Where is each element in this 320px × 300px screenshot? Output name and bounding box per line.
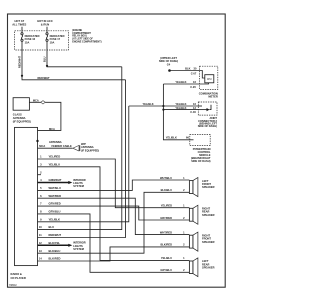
svg-text:BLU: BLU [42, 57, 46, 62]
svg-text:METER: METER [208, 95, 217, 99]
powertrain control module box (dashed) [190, 135, 210, 146]
svg-text:10A: 10A [50, 40, 55, 44]
ground dot G4 [168, 69, 171, 72]
wire BLK to combination meter pin 30 [170, 66, 200, 75]
wire stub above fuse 17 [46, 27, 48, 33]
svg-text:ANTENNA: ANTENNA [13, 116, 26, 120]
junction dot joint connector pin 12 [162, 109, 164, 111]
label HOT IN ACC & RUN [37, 19, 53, 26]
pin 7 GRY/RED wire to right rear speaker - [38, 202, 190, 220]
glass antenna caption [13, 112, 31, 123]
label W/P ANTENNA (IF EQUIPPED) [81, 142, 99, 152]
wire BLU vertical bus down to radio pin 10 [38, 67, 122, 230]
wire YEL/BLK bus to joint connector pin 16 [129, 102, 199, 106]
svg-text:BLU: BLU [49, 225, 55, 229]
svg-text:SIDE OF DASH): SIDE OF DASH) [159, 59, 178, 63]
left rear speaker [160, 256, 214, 276]
svg-text:ANTENNA: ANTENNA [49, 140, 62, 144]
svg-text:YEL/BLU: YEL/BLU [49, 162, 61, 166]
svg-text:BLK/YEL: BLK/YEL [49, 241, 61, 245]
pin 5 WHT/BLU wire to left front speaker + [38, 180, 190, 190]
svg-text:SPEAKER: SPEAKER [202, 185, 215, 189]
wire RED/WHT vertical bus down to radio pin 11 [38, 80, 126, 238]
svg-text:WHT/BLU: WHT/BLU [160, 176, 172, 180]
svg-text:RED/WHT: RED/WHT [49, 233, 62, 237]
junction dot antenna feeder on radio edge [36, 140, 38, 142]
svg-text:BLK/BLU: BLK/BLU [49, 249, 61, 253]
engine compartment relay box (dashed) [15, 31, 69, 50]
svg-text:HOT IN ACC: HOT IN ACC [37, 19, 53, 23]
pin 13 BLK/BLU wire to left front speaker - [38, 192, 190, 253]
right rear speaker [160, 204, 214, 225]
svg-text:WHT/RED: WHT/RED [49, 194, 62, 198]
svg-text:15A: 15A [25, 40, 30, 44]
svg-text:(IF EQUIPPED): (IF EQUIPPED) [13, 119, 31, 123]
junction dot joint connector pin 16 [162, 105, 164, 107]
pin 2 stub [38, 170, 43, 174]
svg-text:CD PLAYER: CD PLAYER [11, 276, 26, 280]
svg-text:MCA: MCA [39, 144, 45, 148]
svg-text:SIDE OF DASH): SIDE OF DASH) [191, 159, 210, 163]
combination meter box (dashed) [200, 66, 218, 89]
svg-text:GLASS: GLASS [13, 112, 22, 116]
svg-text:SPEAKER: SPEAKER [202, 213, 215, 217]
svg-text:GRY/RED: GRY/RED [49, 202, 61, 206]
svg-text:GRY/BLU: GRY/BLU [49, 210, 61, 214]
label HOT AT ALL TIMES [12, 19, 26, 26]
wire RED/WHT from fuse 16 down then right [22, 41, 126, 79]
svg-text:(IF EQUIPPED): (IF EQUIPPED) [81, 148, 99, 152]
svg-text:ALL TIMES: ALL TIMES [12, 23, 26, 27]
svg-text:CPU: CPU [207, 79, 212, 81]
pin 10 BLU label [39, 225, 54, 229]
pin 4 GRN/WHT arrow to interior lights system [38, 178, 86, 188]
pin 14 BLK/RED wire to right front speaker - [38, 247, 190, 261]
wire stub above fuse 16 [21, 27, 23, 33]
svg-text:FEEDER CABLE: FEEDER CABLE [52, 144, 72, 148]
pin 3 YEL/BLU wire to left rear speaker + [38, 162, 190, 260]
svg-text:BLK/BLU: BLK/BLU [161, 188, 173, 192]
glass antenna box [13, 98, 29, 111]
svg-text:C-20: C-20 [190, 85, 196, 89]
left front speaker [160, 176, 215, 197]
svg-text:YEL/BLK: YEL/BLK [175, 106, 186, 110]
svg-text:SYSTEM: SYSTEM [73, 247, 84, 251]
PCM caption [191, 147, 211, 163]
svg-text:YEL/BLK: YEL/BLK [175, 102, 186, 106]
connector symbol W/P antenna [73, 145, 79, 151]
right front speaker [160, 230, 215, 251]
svg-text:GRN/WHT: GRN/WHT [49, 178, 62, 182]
svg-text:ENGINE COMPARTMENT): ENGINE COMPARTMENT) [72, 41, 102, 44]
svg-text:G4: G4 [167, 63, 171, 67]
fuse 16 [21, 33, 40, 45]
svg-text:WHT/BLU: WHT/BLU [49, 186, 61, 190]
wire antenna lead from glass antenna to radio [29, 102, 61, 130]
svg-text:MCA: MCA [33, 98, 39, 102]
pin 6 WHT/RED wire to right front speaker + [38, 194, 190, 235]
svg-text:YEL/RED: YEL/RED [161, 204, 172, 208]
svg-text:BLK/RED: BLK/RED [49, 257, 61, 261]
relay box caption [72, 29, 102, 44]
svg-text:SPEAKER: SPEAKER [202, 266, 215, 270]
pin 12 BLK/YEL arrow to interior lights system [38, 241, 86, 251]
fuse 17 [46, 33, 65, 45]
radio & cd player box [15, 127, 38, 265]
pin 1 YEL/RED wire to right rear speaker + [38, 155, 190, 208]
svg-text:YEL/BLU: YEL/BLU [161, 256, 172, 260]
svg-text:SYSTEM: SYSTEM [73, 184, 84, 188]
wire YEL/BLK vertical from meter to PCM [163, 84, 189, 140]
ground G4 caption [159, 56, 178, 66]
junction dot on BLU [46, 65, 48, 67]
svg-text:WHT/RED: WHT/RED [160, 230, 172, 234]
page border frame [8, 14, 226, 287]
svg-text:GRY/RED: GRY/RED [160, 216, 172, 220]
wire antenna feeder cable [38, 147, 73, 149]
svg-text:YEL/BLK: YEL/BLK [175, 80, 186, 84]
joint connector caption [198, 116, 218, 128]
svg-text:SIDE OF DASH): SIDE OF DASH) [198, 124, 217, 128]
PCM internal stub [190, 139, 194, 141]
svg-text:C-46: C-46 [190, 110, 196, 114]
joint connector 2 box (dashed) [198, 102, 217, 115]
CPU box [205, 75, 214, 83]
pin 11 RED/WHT label [39, 233, 61, 237]
svg-text:& RUN: & RUN [41, 23, 50, 27]
svg-text:BLK: BLK [185, 66, 190, 70]
svg-text:GRY/BLU: GRY/BLU [160, 268, 172, 272]
wire YEL/BLK to combination meter pin 16 [163, 80, 199, 89]
combination meter caption [199, 91, 218, 98]
svg-text:RED/WHT: RED/WHT [17, 55, 21, 68]
svg-text:BLK/RED: BLK/RED [160, 243, 172, 247]
svg-text:HOT AT: HOT AT [14, 19, 24, 23]
svg-text:C-07: C-07 [191, 71, 197, 75]
wire YEL/BLK to PCM pin 66 [166, 136, 190, 140]
connector diamond MCA [41, 101, 45, 104]
label ANTENNA MCA FEEDER CABLE [39, 140, 72, 148]
svg-text:YEL/RED: YEL/RED [49, 155, 61, 159]
svg-text:MCA: MCA [49, 127, 55, 131]
svg-text:RED/WHT: RED/WHT [38, 76, 51, 80]
radio caption [11, 272, 26, 280]
joint connector internal bus [198, 105, 202, 107]
pin 8 GRY/BLU wire to left rear speaker - [38, 210, 190, 273]
svg-text:SPEAKER: SPEAKER [202, 240, 215, 244]
svg-text:YEL/BLK: YEL/BLK [49, 217, 61, 221]
wire YEL/BLK to joint connector pin 12 [163, 106, 198, 114]
pin 9 YEL/BLK wire up to meter bus [38, 106, 129, 222]
junction dot on RED/WHT [21, 75, 23, 77]
meter internal wiring [200, 71, 205, 79]
svg-text:YEL/BLK: YEL/BLK [166, 136, 177, 140]
svg-text:YEL/BLK: YEL/BLK [143, 102, 154, 106]
svg-text:Y98002: Y98002 [9, 285, 18, 287]
svg-text:RADIO &: RADIO & [11, 272, 22, 276]
wire BLU from fuse 17 down then right [47, 41, 122, 66]
